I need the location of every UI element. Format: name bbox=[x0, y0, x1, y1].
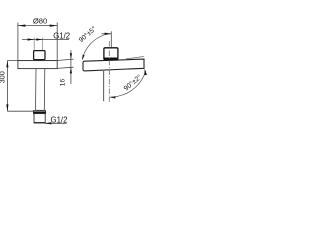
square nut on flange (front view) bbox=[34, 51, 45, 60]
dimension Ø80 left extension line bbox=[17, 23, 19, 61]
dash-dot centre line bbox=[108, 41, 110, 102]
thread bottom edge bbox=[34, 122, 45, 124]
flange plate Ø80 (front view) bbox=[18, 61, 57, 69]
svg-text:90°±5°: 90°±5° bbox=[77, 25, 98, 44]
dimension 300 line bbox=[6, 61, 8, 112]
arrowhead at bar corner pointing down bbox=[82, 55, 85, 61]
axis line above nut bbox=[110, 31, 112, 47]
dimension 300 top arrow pointing up bbox=[6, 61, 8, 68]
arm tolerance line below bar bbox=[103, 71, 105, 101]
dimension Ø80 left arrow bbox=[18, 25, 26, 27]
dimension G1/2 bottom arrow pointing left bbox=[45, 122, 52, 124]
arc 90°±2° bbox=[118, 71, 146, 97]
square nut (side view) bbox=[104, 48, 118, 60]
arrowhead pointing right at axis bbox=[105, 33, 112, 35]
arrowhead at bar right end pointing up bbox=[145, 69, 147, 76]
dimension 16 top arrow pointing down bbox=[70, 53, 72, 59]
svg-text:Ø80: Ø80 bbox=[33, 16, 47, 25]
svg-text:300: 300 bbox=[0, 71, 6, 83]
tolerance ghost line above bar bbox=[126, 57, 144, 59]
ceiling line bbox=[7, 60, 57, 62]
flange bottom extension line for 16 bbox=[57, 67, 73, 68]
dimension 16 bottom arrow pointing up bbox=[70, 67, 72, 73]
tail to arc end bbox=[109, 95, 118, 98]
arm end extension line bbox=[7, 110, 33, 112]
svg-text:G1/2: G1/2 bbox=[53, 32, 70, 41]
arm tube right edge bbox=[43, 69, 46, 111]
dimension Ø80 dimension line bbox=[18, 25, 57, 27]
thread shadow blob below nut bbox=[37, 60, 42, 61]
dimension Ø80 right arrow bbox=[50, 25, 58, 27]
tube end line bbox=[36, 109, 45, 111]
flange bar (side view, tilted) bbox=[83, 59, 144, 71]
arrowhead at centre line pointing left bbox=[109, 96, 116, 98]
dimension 16 line bbox=[70, 50, 72, 84]
svg-text:G1/2: G1/2 bbox=[51, 116, 68, 125]
arrow tail at axis bbox=[102, 33, 112, 35]
retaining ring at arm end bbox=[33, 111, 45, 114]
outlet thread G1/2 body bbox=[34, 114, 45, 123]
dimension 300 bottom arrow pointing down bbox=[6, 104, 8, 111]
ring dark band bbox=[33, 111, 45, 113]
thread stub G1/2 right line bbox=[42, 38, 44, 51]
dimension G1/2 line bbox=[22, 39, 69, 41]
dimension G1/2 bottom leader line bbox=[45, 122, 67, 124]
dimension Ø80 right extension line bbox=[56, 23, 58, 61]
dimension G1/2 left arrow pointing right bbox=[28, 38, 35, 40]
arc 90°±5° bbox=[82, 35, 104, 59]
nut bottom shadow bbox=[104, 58, 117, 60]
thread stub G1/2 left line bbox=[33, 38, 35, 51]
flange top extension line for 16 bbox=[57, 59, 73, 60]
dimension G1/2 right arrow pointing right inside stub bbox=[36, 38, 42, 40]
svg-text:16: 16 bbox=[60, 79, 67, 87]
arm tube left edge bbox=[35, 69, 38, 111]
